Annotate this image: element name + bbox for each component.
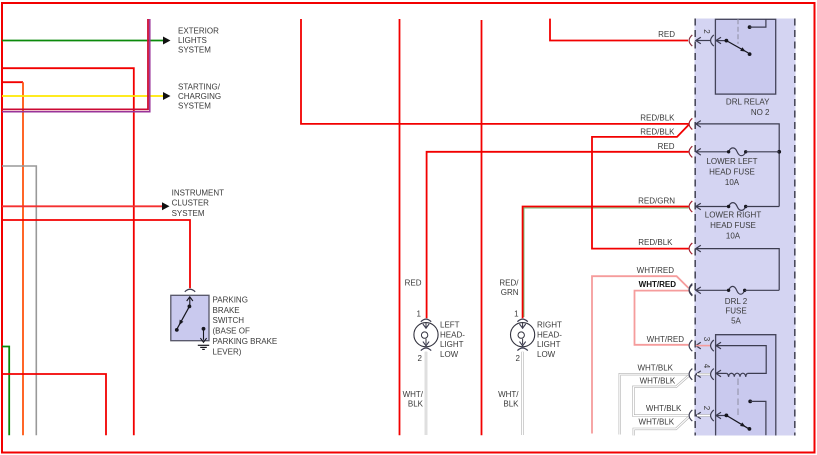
wire gray left	[2, 166, 36, 435]
connector red lower left fuse	[689, 146, 692, 157]
junction dot on bus	[777, 150, 781, 154]
lower right head fuse F2	[696, 203, 701, 210]
svg-text:(BASE OF: (BASE OF	[213, 327, 250, 336]
svg-text:RIGHT: RIGHT	[537, 321, 562, 330]
svg-text:RED/BLK: RED/BLK	[640, 113, 675, 122]
svg-text:RED/GRN: RED/GRN	[638, 196, 675, 205]
wire red/grn to right headlight	[523, 207, 689, 319]
svg-text:2: 2	[418, 354, 423, 363]
svg-text:WHT/RED: WHT/RED	[639, 280, 677, 289]
wire wht/blk below right headlight	[521, 352, 523, 435]
connector pin 2 relay 2	[689, 410, 692, 421]
relay 2 divider	[737, 379, 739, 419]
wire crimson red pair-upper	[2, 19, 148, 109]
wire purple pair-lower	[2, 19, 150, 112]
svg-text:SYSTEM: SYSTEM	[178, 101, 211, 110]
svg-text:10A: 10A	[726, 232, 741, 241]
wire yellow to starting/charging system	[2, 95, 163, 97]
wire red x301 to red/blk connector	[301, 19, 689, 124]
svg-text:NO 2: NO 2	[751, 108, 770, 117]
drl 2 fuse F3	[696, 287, 701, 294]
svg-text:BLK: BLK	[408, 400, 424, 409]
wire wht/blk pin2 lower	[634, 417, 689, 435]
svg-text:BLK: BLK	[503, 400, 519, 409]
svg-text:LOW: LOW	[440, 350, 459, 359]
svg-text:LOW: LOW	[537, 350, 556, 359]
svg-text:BRAKE: BRAKE	[213, 306, 240, 315]
svg-text:PARKING: PARKING	[213, 295, 248, 304]
svg-text:WHT/: WHT/	[498, 390, 519, 399]
wire red to parking brake switch	[2, 220, 190, 288]
svg-text:RED: RED	[658, 30, 675, 39]
svg-text:5A: 5A	[731, 316, 741, 325]
svg-text:WHT/RED: WHT/RED	[647, 335, 685, 344]
svg-text:WHT/: WHT/	[403, 390, 424, 399]
connector red/blk drl 2 fuse	[689, 243, 692, 254]
connector wht/red exit	[689, 284, 692, 295]
svg-text:HEAD FUSE: HEAD FUSE	[709, 168, 755, 177]
left headlight bulb L1	[421, 319, 431, 322]
connector pin 2 drl relay	[689, 35, 692, 46]
svg-text:SYSTEM: SYSTEM	[178, 45, 211, 54]
panel wire red/blk to drl 2 fuse	[696, 249, 779, 291]
wire red to instrument cluster system	[2, 205, 162, 207]
fuse/relay center dash panel	[695, 19, 796, 436]
wire wht/blk below left headlight	[425, 352, 427, 435]
svg-text:2: 2	[702, 406, 711, 411]
svg-text:HEAD-: HEAD-	[440, 330, 465, 339]
connector red/blk merged	[689, 118, 692, 129]
svg-text:HEAD FUSE: HEAD FUSE	[710, 221, 756, 230]
relay 2 coil W1	[729, 373, 746, 377]
right headlight bulb L2	[517, 319, 527, 322]
wire wht/blk pin4 straight	[620, 374, 689, 434]
svg-text:1: 1	[417, 309, 422, 318]
svg-text:EXTERIOR: EXTERIOR	[178, 27, 219, 36]
panel wire red/blk bus	[696, 124, 779, 207]
drl relay no 2 switch	[716, 40, 727, 42]
svg-text:WHT/RED: WHT/RED	[637, 266, 675, 275]
wire green to exterior lights system	[2, 40, 163, 42]
svg-text:LEVER): LEVER)	[213, 347, 242, 356]
svg-text:RED/BLK: RED/BLK	[640, 127, 675, 136]
svg-text:2: 2	[516, 354, 521, 363]
svg-text:DRL 2: DRL 2	[725, 297, 748, 306]
svg-text:2: 2	[702, 29, 711, 34]
arrow to exterior lights system	[163, 37, 171, 45]
wire red to drl relay no 2	[550, 19, 688, 41]
svg-text:3: 3	[702, 337, 711, 342]
connector wht/red drl 2 fuse	[689, 285, 692, 296]
parking brake switch arm	[187, 297, 193, 301]
wire red/blk loop x592	[592, 125, 689, 249]
drl relay no 2 divider	[737, 19, 739, 44]
svg-text:SWITCH: SWITCH	[213, 316, 245, 325]
wire red/grn green companion	[524, 208, 689, 317]
svg-text:RED/: RED/	[499, 279, 519, 288]
wire wht/red exit to bottom	[592, 276, 689, 433]
svg-text:FUSE: FUSE	[725, 307, 746, 316]
svg-text:HEAD-: HEAD-	[537, 330, 562, 339]
lower left head fuse F1	[696, 149, 701, 156]
parking brake switch S1 box	[185, 289, 195, 292]
svg-text:LIGHT: LIGHT	[440, 340, 464, 349]
connector pin 3 relay 2	[689, 340, 692, 351]
parking brake switch ground branch	[202, 327, 206, 331]
ground symbol under parking brake switch	[198, 344, 209, 346]
svg-text:INSTRUMENT: INSTRUMENT	[172, 188, 225, 197]
svg-text:STARTING/: STARTING/	[178, 83, 221, 92]
svg-text:RED: RED	[658, 142, 675, 151]
svg-text:DRL RELAY: DRL RELAY	[726, 98, 770, 107]
svg-text:PARKING BRAKE: PARKING BRAKE	[213, 337, 278, 346]
svg-text:RED/BLK: RED/BLK	[638, 238, 673, 247]
svg-text:LIGHT: LIGHT	[537, 340, 561, 349]
wire wht/blk pin4-to-pin2 loop	[633, 376, 688, 416]
svg-text:LIGHTS: LIGHTS	[178, 36, 207, 45]
wire red upper-left branch	[2, 68, 134, 435]
svg-text:WHT/BLK: WHT/BLK	[640, 376, 676, 385]
relay 2 coil circuit pin 3	[716, 342, 721, 349]
svg-text:WHT/BLK: WHT/BLK	[637, 363, 673, 372]
wire red short left branch	[2, 81, 23, 83]
wire green lower-left	[2, 347, 9, 436]
wire red lower-left	[2, 374, 106, 435]
wire red pass-through x481	[481, 20, 483, 435]
wire red pass-through x399	[399, 19, 401, 435]
svg-text:CLUSTER: CLUSTER	[172, 199, 210, 208]
connector pin 4 relay 2	[689, 369, 692, 380]
svg-text:4: 4	[702, 364, 711, 369]
drl relay no 1 box U2	[716, 335, 776, 436]
wire wht/red loop fuse-to-relay	[635, 291, 689, 345]
arrow to instrument cluster system	[162, 202, 170, 210]
svg-text:LEFT: LEFT	[440, 321, 460, 330]
svg-text:WHT/BLK: WHT/BLK	[639, 417, 675, 426]
svg-text:CHARGING: CHARGING	[178, 92, 221, 101]
svg-text:SYSTEM: SYSTEM	[172, 209, 205, 218]
svg-text:GRN: GRN	[501, 288, 519, 297]
relay 2 switch pin 2	[716, 412, 721, 419]
svg-text:10A: 10A	[725, 178, 740, 187]
svg-text:LOWER RIGHT: LOWER RIGHT	[705, 211, 762, 220]
wire red to left headlight	[427, 152, 689, 318]
svg-text:RED: RED	[405, 279, 422, 288]
connector red/grn lower right fuse	[689, 201, 692, 212]
svg-text:1: 1	[514, 309, 519, 318]
arrow to starting/charging system	[163, 92, 171, 100]
svg-text:LOWER LEFT: LOWER LEFT	[706, 157, 757, 166]
svg-text:WHT/BLK: WHT/BLK	[646, 404, 682, 413]
drl relay no 2 box U1	[715, 19, 775, 94]
